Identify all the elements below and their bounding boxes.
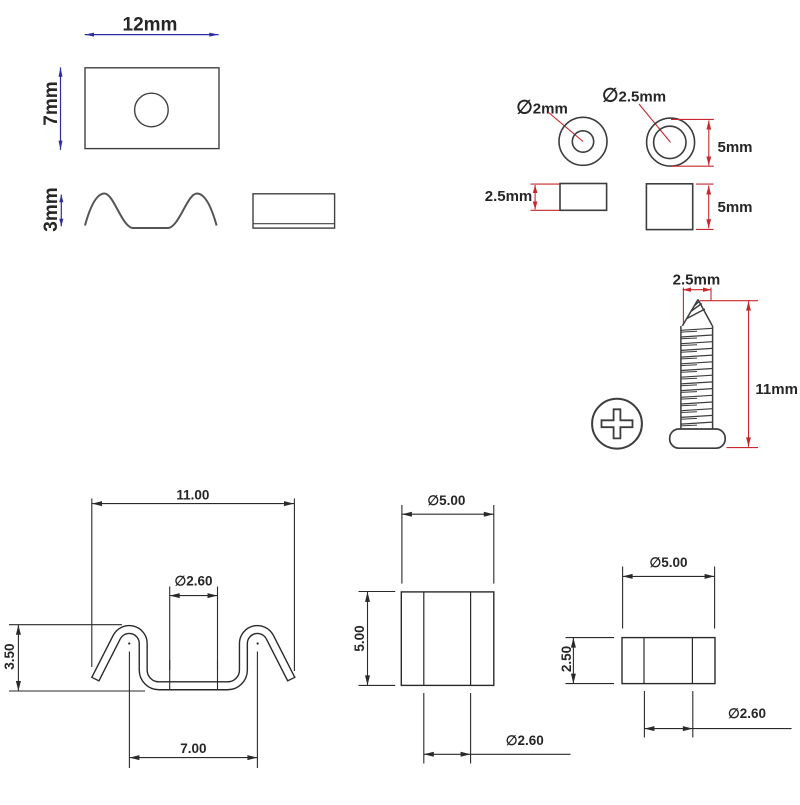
label 11mm (755, 381, 798, 398)
svg-text:3mm: 3mm (41, 187, 62, 231)
dim d5.00 right (623, 567, 715, 629)
dim 3mm label (41, 187, 62, 231)
spacer 5mm side square (646, 184, 692, 230)
dim 2.5mm screw (683, 288, 712, 325)
screw shaft (681, 326, 713, 429)
svg-text:11mm: 11mm (755, 381, 798, 398)
svg-text:12mm: 12mm (123, 15, 178, 36)
svg-text:2.50: 2.50 (559, 646, 574, 672)
plate hole (135, 93, 169, 127)
dim 11.00 (92, 499, 295, 672)
label d2.5mm (602, 86, 666, 107)
label d2.60 right (728, 706, 766, 721)
label 5mm washer (718, 139, 753, 156)
dim d2.60 right (644, 691, 791, 738)
dim 11mm screw (700, 301, 758, 448)
svg-text:11.00: 11.00 (176, 487, 209, 502)
dim 12mm line (85, 33, 219, 37)
dim 5.00 mid (359, 592, 396, 686)
dim 7mm label (41, 81, 62, 125)
screw tip cone (682, 300, 712, 326)
label 5mm spacer (718, 199, 753, 216)
svg-text:7mm: 7mm (41, 81, 62, 125)
dim d2.60 clip extension overlay (170, 660, 218, 691)
label 3.50 (2, 643, 17, 669)
dim 12mm label (123, 15, 178, 36)
svg-text:5.00: 5.00 (352, 625, 367, 651)
spacer square body mid (401, 592, 494, 686)
dim d2.60 clip (170, 587, 218, 671)
label 11.00 (176, 487, 209, 502)
washer 2mm outer (559, 117, 607, 165)
label 2.5mm spacer (485, 188, 533, 205)
wave spring side profile (85, 194, 217, 229)
svg-text:2.5mm: 2.5mm (485, 188, 533, 205)
dim 5mm spacer (696, 184, 714, 229)
dim 7mm line (59, 67, 63, 149)
spacer 2.5mm side rect (560, 184, 607, 211)
leader d2.5mm (639, 104, 671, 142)
hook center marks (128, 642, 259, 644)
dim d2.60 mid (424, 693, 571, 764)
label 2.5mm screw (673, 272, 721, 289)
label d5.00 mid (427, 493, 465, 508)
label 7.00 (180, 741, 206, 756)
clip wire profile (95, 630, 291, 686)
spacer rect body right (622, 638, 715, 684)
svg-text:∅5.00: ∅5.00 (649, 555, 687, 570)
plate rectangle (85, 68, 219, 149)
svg-text:5mm: 5mm (718, 199, 753, 216)
label d5.00 right (649, 555, 687, 570)
screw head side view (670, 429, 726, 448)
label d2.60 mid (506, 733, 544, 748)
svg-text:∅2.60: ∅2.60 (728, 706, 766, 721)
svg-text:3.50: 3.50 (2, 643, 17, 669)
svg-text:∅2.60: ∅2.60 (174, 573, 212, 588)
phillips head front view circle (592, 399, 642, 449)
svg-text:2.5mm: 2.5mm (673, 272, 721, 289)
washer 2mm bore (572, 131, 593, 152)
leader d2mm (548, 112, 583, 142)
label d2.60 clip (174, 573, 212, 588)
screw threads (681, 328, 713, 426)
flat clip side view rect (253, 194, 335, 228)
svg-text:∅2.5mm: ∅2.5mm (602, 86, 666, 107)
svg-text:∅2mm: ∅2mm (516, 98, 568, 119)
phillips cross recess (602, 409, 633, 438)
washer 2.5mm outer (647, 118, 695, 166)
svg-text:7.00: 7.00 (180, 741, 206, 756)
dim 2.5mm spacer (531, 184, 560, 210)
label 5.00 mid (352, 625, 367, 651)
dim 3.50 (9, 625, 145, 691)
svg-text:5mm: 5mm (718, 139, 753, 156)
dim 3mm line (59, 195, 63, 227)
label 2.50 right (559, 646, 574, 672)
label d2mm (516, 98, 568, 119)
svg-text:∅5.00: ∅5.00 (427, 493, 465, 508)
dim 2.50 right (566, 638, 615, 684)
clip wire end faces (91, 677, 295, 681)
svg-text:∅2.60: ∅2.60 (506, 733, 544, 748)
washer 2.5mm bore (654, 126, 686, 158)
dim d5.00 mid (402, 505, 494, 584)
dim 5mm washer (671, 119, 714, 166)
dim 7.00 (129, 652, 257, 769)
